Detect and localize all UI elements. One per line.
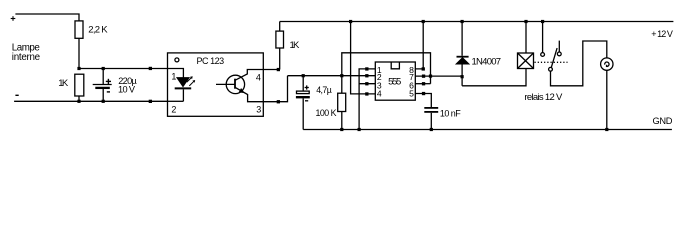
svg-text:10 V: 10 V	[118, 85, 136, 95]
op-amp U1 PC123 optocoupler box	[168, 53, 264, 116]
pin 4 label PC123	[256, 73, 261, 83]
junction 10nF GND	[430, 128, 433, 131]
capacitor C2 4,7u	[296, 85, 332, 101]
wire +12V top rail	[280, 21, 674, 23]
wire LED anode	[168, 69, 184, 78]
wire 555 pin1 to GND	[359, 69, 375, 130]
wire switch to lamp	[551, 41, 607, 86]
pin 2 label PC123	[171, 105, 176, 115]
wire node A to PC123 pin1	[79, 68, 168, 70]
pin square PC123 pin2	[149, 100, 152, 103]
junction 4,7u top	[302, 74, 305, 77]
wire bottom-left return	[14, 100, 167, 102]
svg-text:5: 5	[409, 88, 414, 98]
pin 3 label PC123	[256, 105, 261, 115]
transistor emitter path to pin3	[235, 76, 288, 102]
lamp L1 circle	[601, 58, 613, 70]
wire 100K riser over 555	[342, 53, 431, 93]
wire lamp to GND	[606, 70, 608, 129]
resistor R4 100K	[316, 93, 346, 118]
capacitor C2 4,7u wire top	[302, 76, 304, 91]
junction pin1 GND	[358, 128, 361, 131]
wire 555 pin8 to +12V	[415, 22, 423, 69]
svg-text:GND: GND	[653, 116, 673, 126]
switch contact c3 and arm	[549, 48, 558, 71]
junction 1K bottom	[77, 100, 80, 103]
svg-text:555: 555	[388, 76, 401, 87]
capacitor C1 220u wire top	[102, 69, 104, 85]
pin square 555 pin8	[422, 67, 425, 70]
capacitor C3 wire bottom	[430, 113, 432, 130]
capacitor C3 10nF	[424, 108, 461, 119]
wire 1K bottom	[78, 96, 80, 101]
svg-text:2: 2	[171, 105, 176, 115]
LED D1 in PC123	[175, 78, 192, 89]
svg-text:4: 4	[256, 73, 261, 83]
switch contact c1	[541, 22, 545, 57]
wire 1K right top and bottom	[279, 22, 281, 70]
svg-text:relais 12 V: relais 12 V	[524, 92, 563, 103]
pin square PC123 pin4	[277, 68, 280, 71]
resistor R2 1K left	[58, 74, 84, 96]
resistor R1 2,2K	[75, 21, 108, 38]
wire top-left rail	[15, 14, 79, 21]
555 right pin digits	[409, 65, 414, 98]
node +12V label	[651, 29, 673, 39]
junction relay rail	[524, 20, 527, 23]
pin square 555 pin1	[365, 67, 368, 70]
transistor base bar	[234, 79, 236, 89]
junction pin7 riser	[429, 75, 432, 78]
transistor base stub	[216, 83, 235, 85]
555 left pin digits	[377, 65, 382, 98]
capacitor C1 220u 10V	[93, 76, 138, 95]
wire net A to 555 pin2	[288, 75, 376, 77]
svg-text:1N4007: 1N4007	[472, 57, 502, 68]
pin square PC123 pin3	[277, 100, 280, 103]
svg-text:4: 4	[377, 88, 382, 98]
capacitor C2 wire bottom	[302, 98, 304, 129]
svg-text:PC 123: PC 123	[197, 56, 225, 66]
wire pin2 internal	[168, 100, 184, 102]
wire 555 pin3 stub	[359, 83, 375, 85]
svg-text:interne: interne	[12, 52, 41, 63]
svg-text:+ 12 V: + 12 V	[651, 29, 673, 39]
junction 100K riser	[340, 74, 343, 77]
junction node A	[77, 67, 80, 70]
pin square 555 pin2	[365, 74, 368, 77]
junction pin4 rail	[349, 20, 352, 23]
wire GND bottom rail	[303, 129, 672, 131]
node label Lampe interne	[12, 43, 41, 64]
node minus lamp return	[15, 94, 18, 96]
pin square 555 pin3	[365, 82, 368, 85]
wire 100K bottom to GND	[341, 112, 343, 130]
transistor collector path to pin4	[235, 70, 280, 81]
junction 100K GND	[340, 128, 343, 131]
pin square 555 pin4	[365, 92, 368, 95]
diode D2 1N4007	[457, 22, 502, 86]
svg-text:3: 3	[256, 105, 261, 115]
svg-text:1: 1	[171, 72, 176, 82]
wire LED cathode	[182, 90, 184, 102]
junction lamp GND	[605, 128, 608, 131]
svg-text:1K: 1K	[58, 78, 69, 89]
svg-text:10 nF: 10 nF	[440, 109, 461, 119]
wire 555 pin4 to +12V	[351, 22, 376, 94]
transistor Q1 phototransistor circle	[226, 75, 244, 93]
LED emission arrows	[187, 76, 195, 86]
junction 220u bottom	[102, 100, 105, 103]
svg-text:1K: 1K	[290, 40, 301, 51]
svg-text:100 K: 100 K	[316, 108, 337, 118]
junction pin8 rail	[422, 20, 425, 23]
dotted mechanical link	[535, 61, 568, 63]
wire 2,2K to node A	[78, 38, 80, 68]
node GND label	[653, 116, 673, 126]
op-amp U2 555 box	[375, 62, 415, 100]
relay K1 coil box	[518, 53, 564, 103]
pin square 555 pin6	[422, 82, 425, 85]
capacitor C1 wire bottom	[102, 89, 104, 101]
wire relay bottom	[462, 69, 526, 86]
switch contact c2	[557, 41, 561, 56]
pin square 555 pin5	[422, 92, 425, 95]
junction diode rail	[461, 20, 464, 23]
node plus lamp supply	[11, 16, 16, 21]
svg-text:4,7µ: 4,7µ	[316, 85, 332, 95]
svg-text:2,2 K: 2,2 K	[88, 24, 108, 35]
junction c1 rail	[541, 20, 544, 23]
pin square PC123 pin1	[149, 67, 152, 70]
pin 1 label PC123	[171, 72, 176, 82]
junction diode anode	[461, 75, 464, 78]
resistor R3 1K right	[276, 31, 300, 51]
pin square 555 pin7	[422, 75, 425, 78]
wire 555 pin5 to 10nF	[415, 94, 431, 108]
wire relay top to +12V	[525, 22, 527, 54]
wire 555 pin6 stub	[415, 83, 430, 85]
junction 220u top	[102, 67, 105, 70]
wire 555 pin7 to diode	[415, 75, 462, 77]
